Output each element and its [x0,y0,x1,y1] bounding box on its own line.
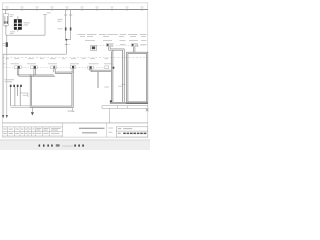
feeder unit D [14,66,21,69]
riser 2 (double line) down to trench [123,49,125,102]
isolator ticks on control feed [65,44,68,46]
fuses on control feeders [65,27,67,30]
page background [0,0,150,150]
text at right end of starter row [141,43,147,46]
junction dot on riser [112,67,114,69]
small text under box right [67,110,72,113]
cable from U3 down then right to riser 2 [109,47,125,51]
title block outer top line [2,122,148,124]
wire: feeder pair merge [66,39,70,41]
wire: merged control feed down to rail 2 [65,40,67,55]
riser 1 (double line) down to trench [111,50,113,102]
cable from E down to machine box top [34,69,36,77]
starter row 1: dashed wire segments y=45.6 [97,45,147,47]
wire: vertical feeder x=45 from bus area to rail 1 [44,15,46,36]
arrowhead on feeder x=6.8 [6,115,8,118]
title block mid divider [106,123,108,137]
toolbar icons right group [74,145,84,147]
starter unit U3 [106,44,113,47]
right section text row y=40.5 [85,39,147,42]
drg no label [118,127,122,130]
revision table [2,123,62,137]
cable from G down along machine box right edge [72,69,73,74]
drawing frame border [2,3,148,137]
small feeder text at x=121 [120,43,125,46]
label left of F1 [3,43,5,46]
earth cross mark at right [146,109,149,112]
feeder unit G [70,66,75,69]
cable from F down to raised box edge [54,69,55,74]
earth mark below machine box left [31,107,33,112]
date label [118,132,121,135]
cable stub from U4 into box B [133,47,135,53]
bus tick marks with labels [7,8,142,11]
toolbar slider line [62,145,73,148]
fuse F1 on left feeder [6,35,8,54]
company address text [82,132,97,133]
kWh meter M1 (dark grid block) [14,16,22,32]
junction dot at cable end [110,100,112,102]
tray divider 1 [117,106,119,109]
rail 1 (horizontal wire y=35.2) [6,34,45,36]
row 2 dashed wire segments y=67.3 [3,66,105,68]
panel boundary dash line y=57.6 [3,57,148,59]
feeder unit H [88,66,94,69]
incoming breaker Q1 (fuse-switch unit) [3,14,8,26]
top power bus L1 [2,9,148,11]
label near feeder top [47,11,51,14]
bottom cable trench double line (right) [110,102,148,103]
label above rail 1 [10,31,15,33]
drg no value [123,127,132,130]
labels left of control feeders [57,19,62,29]
wire: bus drop to incomer [5,10,7,14]
riser cable size label 2 [118,85,122,88]
toolbar icons (page navigation) [39,144,60,146]
termination stub below cable H [96,72,98,88]
supply cable text block [5,79,15,82]
viewer toolbar strip [0,140,150,150]
arrowhead on feeder x=3.2 [2,115,4,118]
control feeder pair from bus (x=65.7 and x=70.6) [64,10,72,40]
row 2 text line y=63.9 [3,62,111,65]
junction dot S1 [65,39,67,41]
feeder disconnect tick on branch at x=45 [43,14,46,16]
feeder unit I (faint) [105,66,109,69]
label text for M1 [24,22,30,25]
long outgoing feeders (left) with arrows [3,54,7,115]
right section text row y=34.5 [78,34,147,37]
rail 2 (horizontal wire y=54.2) [3,53,66,55]
row 2 text line y=58.8 [6,57,109,60]
cable tray below trench [102,106,148,109]
drop wire from tray to title block [109,108,111,123]
cable from H: down then right to riser [90,69,112,72]
equipment box B (double border) [127,52,148,103]
tray divider 2 [126,106,128,109]
starter unit U2 [91,45,97,50]
terminal strip (dark marks) [10,85,22,87]
feeder unit F [51,66,57,69]
mid column small text [108,128,113,133]
company name text [79,128,105,129]
riser cable size label 1 [104,86,109,89]
stub with label from terminal drop [20,93,28,97]
bottom trench double line (left) [11,106,31,108]
cable from D: down then right into machine box [17,69,31,77]
page bottom edge line [0,139,150,141]
label text for Q1 [10,14,14,17]
title block right box [116,127,147,137]
earth mark below machine box right [72,107,74,110]
drawing number (dark dashes) [123,133,146,135]
tick on riser 2 [122,83,126,85]
starter unit U4 [131,44,137,47]
bus tick labels [6,6,144,9]
wire: terminal drops to trench [11,87,21,106]
revision table cell text [3,128,60,134]
wire: incomer down to rail 1 [5,25,7,35]
machine box (double border, stepped top) [30,72,73,107]
feeder unit E [31,66,38,69]
boundary dash line right y=34.6 [77,34,148,36]
